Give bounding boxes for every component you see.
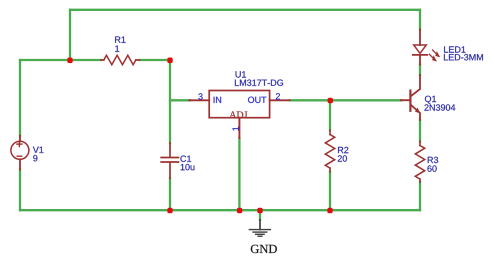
wire R1 row left bbox=[20, 59, 101, 61]
regulator U1 LM317T-DG body bbox=[209, 91, 269, 118]
wire IN branch bbox=[170, 99, 190, 101]
label Q1 value bbox=[424, 96, 455, 111]
label LED1 value bbox=[444, 46, 483, 60]
label V1 value bbox=[33, 147, 44, 162]
ground symbol bbox=[249, 220, 270, 236]
wire ADJ column bbox=[238, 138, 240, 210]
resistor R2 bbox=[325, 130, 334, 172]
pin 3 stub (IN) bbox=[189, 99, 209, 101]
transistor Q1 bbox=[401, 75, 420, 120]
label R2 value bbox=[338, 147, 349, 162]
wire left vertical upper (to V1) bbox=[19, 60, 21, 136]
wire R1 row right bbox=[140, 59, 171, 61]
pin name OUT bbox=[248, 97, 266, 103]
label R1 value bbox=[115, 37, 125, 52]
junction R2 bottom bbox=[327, 208, 332, 214]
node GND label bbox=[251, 245, 277, 253]
pin 1 stub (ADJ) bbox=[238, 118, 240, 138]
wire R2 column upper bbox=[329, 100, 331, 130]
wire C1 column upper bbox=[169, 60, 171, 143]
wire LED to Q1 bbox=[419, 65, 421, 75]
label C1 value bbox=[180, 156, 194, 171]
junction OUT-R2 bbox=[328, 98, 333, 104]
wire GND stub bbox=[259, 210, 261, 220]
pin 2 stub (OUT) bbox=[270, 99, 290, 101]
resistor R1 bbox=[101, 55, 140, 64]
pin number 2 bbox=[276, 93, 280, 99]
junction GND bbox=[257, 208, 262, 214]
junction C1 bottom bbox=[167, 208, 172, 214]
pin number 3 bbox=[198, 93, 202, 99]
wire left vertical lower (V1 to bottom) bbox=[19, 169, 21, 210]
wire LED column top bbox=[419, 10, 421, 30]
label U1 bbox=[235, 71, 283, 86]
resistor R3 bbox=[415, 141, 424, 182]
wire R2 column lower bbox=[329, 172, 331, 210]
wire C1 column lower bbox=[169, 178, 171, 210]
pin name ADJ bbox=[229, 111, 247, 118]
wire bottom horizontal bbox=[20, 209, 420, 211]
capacitor C1 bbox=[161, 143, 178, 178]
pin number 1 (rotated) bbox=[233, 127, 239, 131]
junction R1 right bbox=[167, 58, 172, 64]
wire R3 to bottom bbox=[419, 182, 421, 210]
pin name IN bbox=[214, 97, 221, 103]
wire Q1 emitter to R3 bbox=[419, 120, 421, 141]
LED1 emission arrows bbox=[429, 50, 440, 62]
wire top horizontal bbox=[70, 9, 420, 11]
LED LED1 bbox=[413, 30, 427, 65]
wire OUT row bbox=[290, 99, 401, 101]
junction R1 left bbox=[67, 58, 72, 64]
wire top-left vertical drop bbox=[69, 10, 71, 60]
junction ADJ bottom bbox=[237, 208, 242, 214]
source V1 bbox=[11, 136, 29, 170]
label R3 value bbox=[427, 157, 438, 172]
